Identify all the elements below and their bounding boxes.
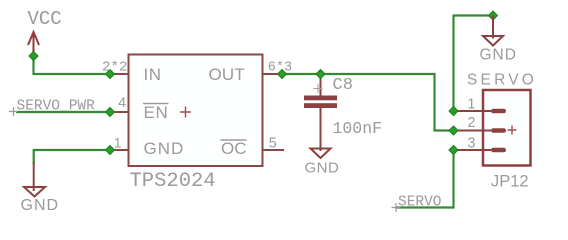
svg-text:GND: GND: [144, 139, 185, 158]
node JP12 pin3 junction: [449, 146, 458, 155]
net label SERVO: [392, 195, 442, 213]
capacitor C8: [304, 74, 337, 151]
wire SERVO_PWR to pin EN: [16, 111, 110, 113]
JP12 pin 2: [454, 130, 492, 132]
svg-text:GND: GND: [21, 197, 60, 214]
node GND top-right junction: [489, 11, 498, 20]
ground GND top-right: [480, 16, 517, 64]
wire OUT to JP12 pin 2: [282, 74, 454, 131]
wire GND-left to pin GND: [34, 150, 110, 164]
wire VCC to pin IN: [34, 49, 111, 74]
pin 1 GND stub: [110, 149, 129, 151]
svg-text:GND: GND: [480, 47, 517, 64]
svg-text:C8: C8: [333, 76, 353, 95]
net label SERVO_PWR: [9, 99, 95, 117]
node pin2 junction: [106, 70, 115, 79]
JP12 pin 1: [454, 110, 492, 112]
node capacitor junction: [316, 70, 325, 79]
node JP12 pin1 junction: [449, 107, 458, 116]
svg-text:2*2: 2*2: [102, 60, 128, 76]
svg-text:1: 1: [467, 97, 475, 113]
svg-text:EN: EN: [144, 103, 169, 122]
ground GND below C8: [305, 149, 340, 177]
svg-text:100nF: 100nF: [333, 119, 383, 138]
pin 2 IN stub: [110, 73, 129, 75]
svg-text:IN: IN: [144, 65, 162, 84]
node pin4 junction: [106, 108, 115, 117]
JP12 origin cross: [508, 126, 517, 135]
svg-text:4: 4: [118, 94, 126, 110]
svg-text:5: 5: [269, 136, 277, 152]
wire JP12 pin 3 to SERVO label: [396, 150, 454, 208]
node pin1 junction: [106, 146, 115, 155]
svg-text:SERVO_PWR: SERVO_PWR: [17, 99, 96, 115]
svg-text:GND: GND: [305, 160, 340, 177]
node VCC junction: [29, 52, 38, 61]
node pin6 junction: [278, 70, 287, 79]
ground GND bottom-left: [21, 162, 60, 214]
svg-text:2: 2: [467, 115, 475, 131]
pin 5 OC stub: [263, 149, 285, 151]
pin 6 OUT stub: [263, 73, 283, 75]
svg-text:OC: OC: [221, 139, 247, 158]
wire JP12 pin 1 to GND top-right: [454, 16, 494, 112]
svg-text:6*3: 6*3: [268, 61, 292, 76]
svg-text:SERVO: SERVO: [467, 72, 537, 89]
IC origin cross: [180, 107, 191, 118]
svg-text:1: 1: [114, 135, 122, 151]
node JP12 pin2 junction: [449, 126, 458, 135]
svg-text:SERVO: SERVO: [398, 195, 442, 211]
connector JP12 box: [483, 90, 531, 166]
svg-text:TPS2024: TPS2024: [130, 170, 216, 193]
op-amp U1 TPS2024 box: [129, 55, 263, 167]
svg-text:VCC: VCC: [28, 8, 62, 30]
svg-text:3: 3: [467, 136, 475, 152]
JP12 pin 3: [454, 149, 492, 151]
svg-text:JP12: JP12: [491, 172, 529, 190]
pin 4 EN stub: [110, 111, 129, 113]
power symbol VCC: [28, 8, 62, 53]
svg-text:OUT: OUT: [209, 65, 245, 84]
